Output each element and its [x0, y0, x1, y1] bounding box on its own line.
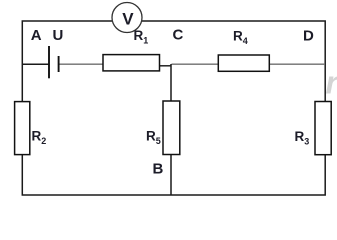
resistor R1 — [103, 55, 160, 71]
svg-text:D: D — [303, 28, 314, 45]
svg-text:B: B — [153, 161, 164, 178]
resistor R3 — [315, 102, 331, 155]
battery U short plate — [58, 56, 60, 72]
svg-text:A: A — [31, 27, 42, 44]
resistor R4 — [218, 55, 269, 71]
svg-text:n: n — [326, 65, 337, 101]
resistor R5 — [163, 101, 180, 155]
wire node C to B vertical — [170, 64, 172, 195]
wire R1 to node C — [159, 65, 172, 67]
wire A to battery — [22, 63, 49, 65]
wire battery to R1 — [59, 63, 104, 65]
battery U long plate — [48, 46, 50, 78]
wire node C to R4 — [172, 63, 219, 65]
svg-text:U: U — [53, 27, 64, 44]
svg-text:V: V — [122, 10, 134, 29]
voltmeter V — [112, 3, 142, 33]
outer loop wire — [22, 21, 325, 195]
resistor R2 — [15, 102, 30, 155]
svg-text:C: C — [173, 27, 184, 44]
wire R4 to D — [269, 63, 325, 65]
